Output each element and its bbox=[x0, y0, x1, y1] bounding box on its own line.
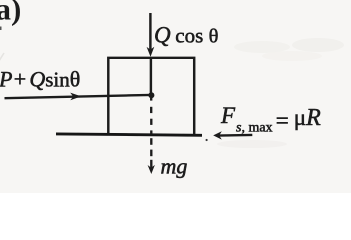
force line P + Q sin theta (shaft) bbox=[5, 95, 152, 98]
block (box) bbox=[108, 58, 194, 135]
svg-text:μR: μR bbox=[294, 105, 321, 131]
dash 3 bbox=[150, 130, 152, 133]
line inside block to center bbox=[150, 58, 152, 93]
faint bleed-through smudge right bbox=[234, 41, 290, 53]
friction arrow head bbox=[213, 131, 222, 139]
ground line bbox=[56, 134, 202, 135]
force arrow Q cos theta (head) bbox=[147, 47, 155, 57]
friction arrow shaft bbox=[218, 134, 252, 137]
mg arrow shaft bbox=[150, 160, 152, 169]
svg-text:P+Qsinθ: P+Qsinθ bbox=[0, 66, 80, 91]
force arrow Q cos theta (shaft) bbox=[149, 13, 151, 50]
mg arrow head bbox=[148, 165, 155, 174]
svg-text:s, max: s, max bbox=[236, 120, 273, 135]
svg-text:=: = bbox=[276, 108, 289, 133]
dash 1 bbox=[150, 107, 152, 113]
svg-text:Qcosθ: Qcosθ bbox=[154, 22, 218, 47]
center of mass dot bbox=[148, 92, 154, 98]
dash 5 bbox=[150, 150, 152, 157]
dash 2 bbox=[150, 119, 152, 125]
dash 4 bbox=[150, 138, 152, 145]
faint diagonal speck left margin bbox=[0, 53, 4, 61]
dashed weight line: tail under dot bbox=[150, 98, 152, 101]
force arrow P + Q sin theta (head) bbox=[70, 93, 81, 101]
svg-text:mg: mg bbox=[161, 154, 188, 179]
svg-text:a): a) bbox=[0, 0, 21, 27]
speck under friction arrow tip bbox=[206, 139, 208, 141]
cut mark below a) bbox=[0, 27, 2, 31]
svg-text:F: F bbox=[220, 103, 236, 128]
